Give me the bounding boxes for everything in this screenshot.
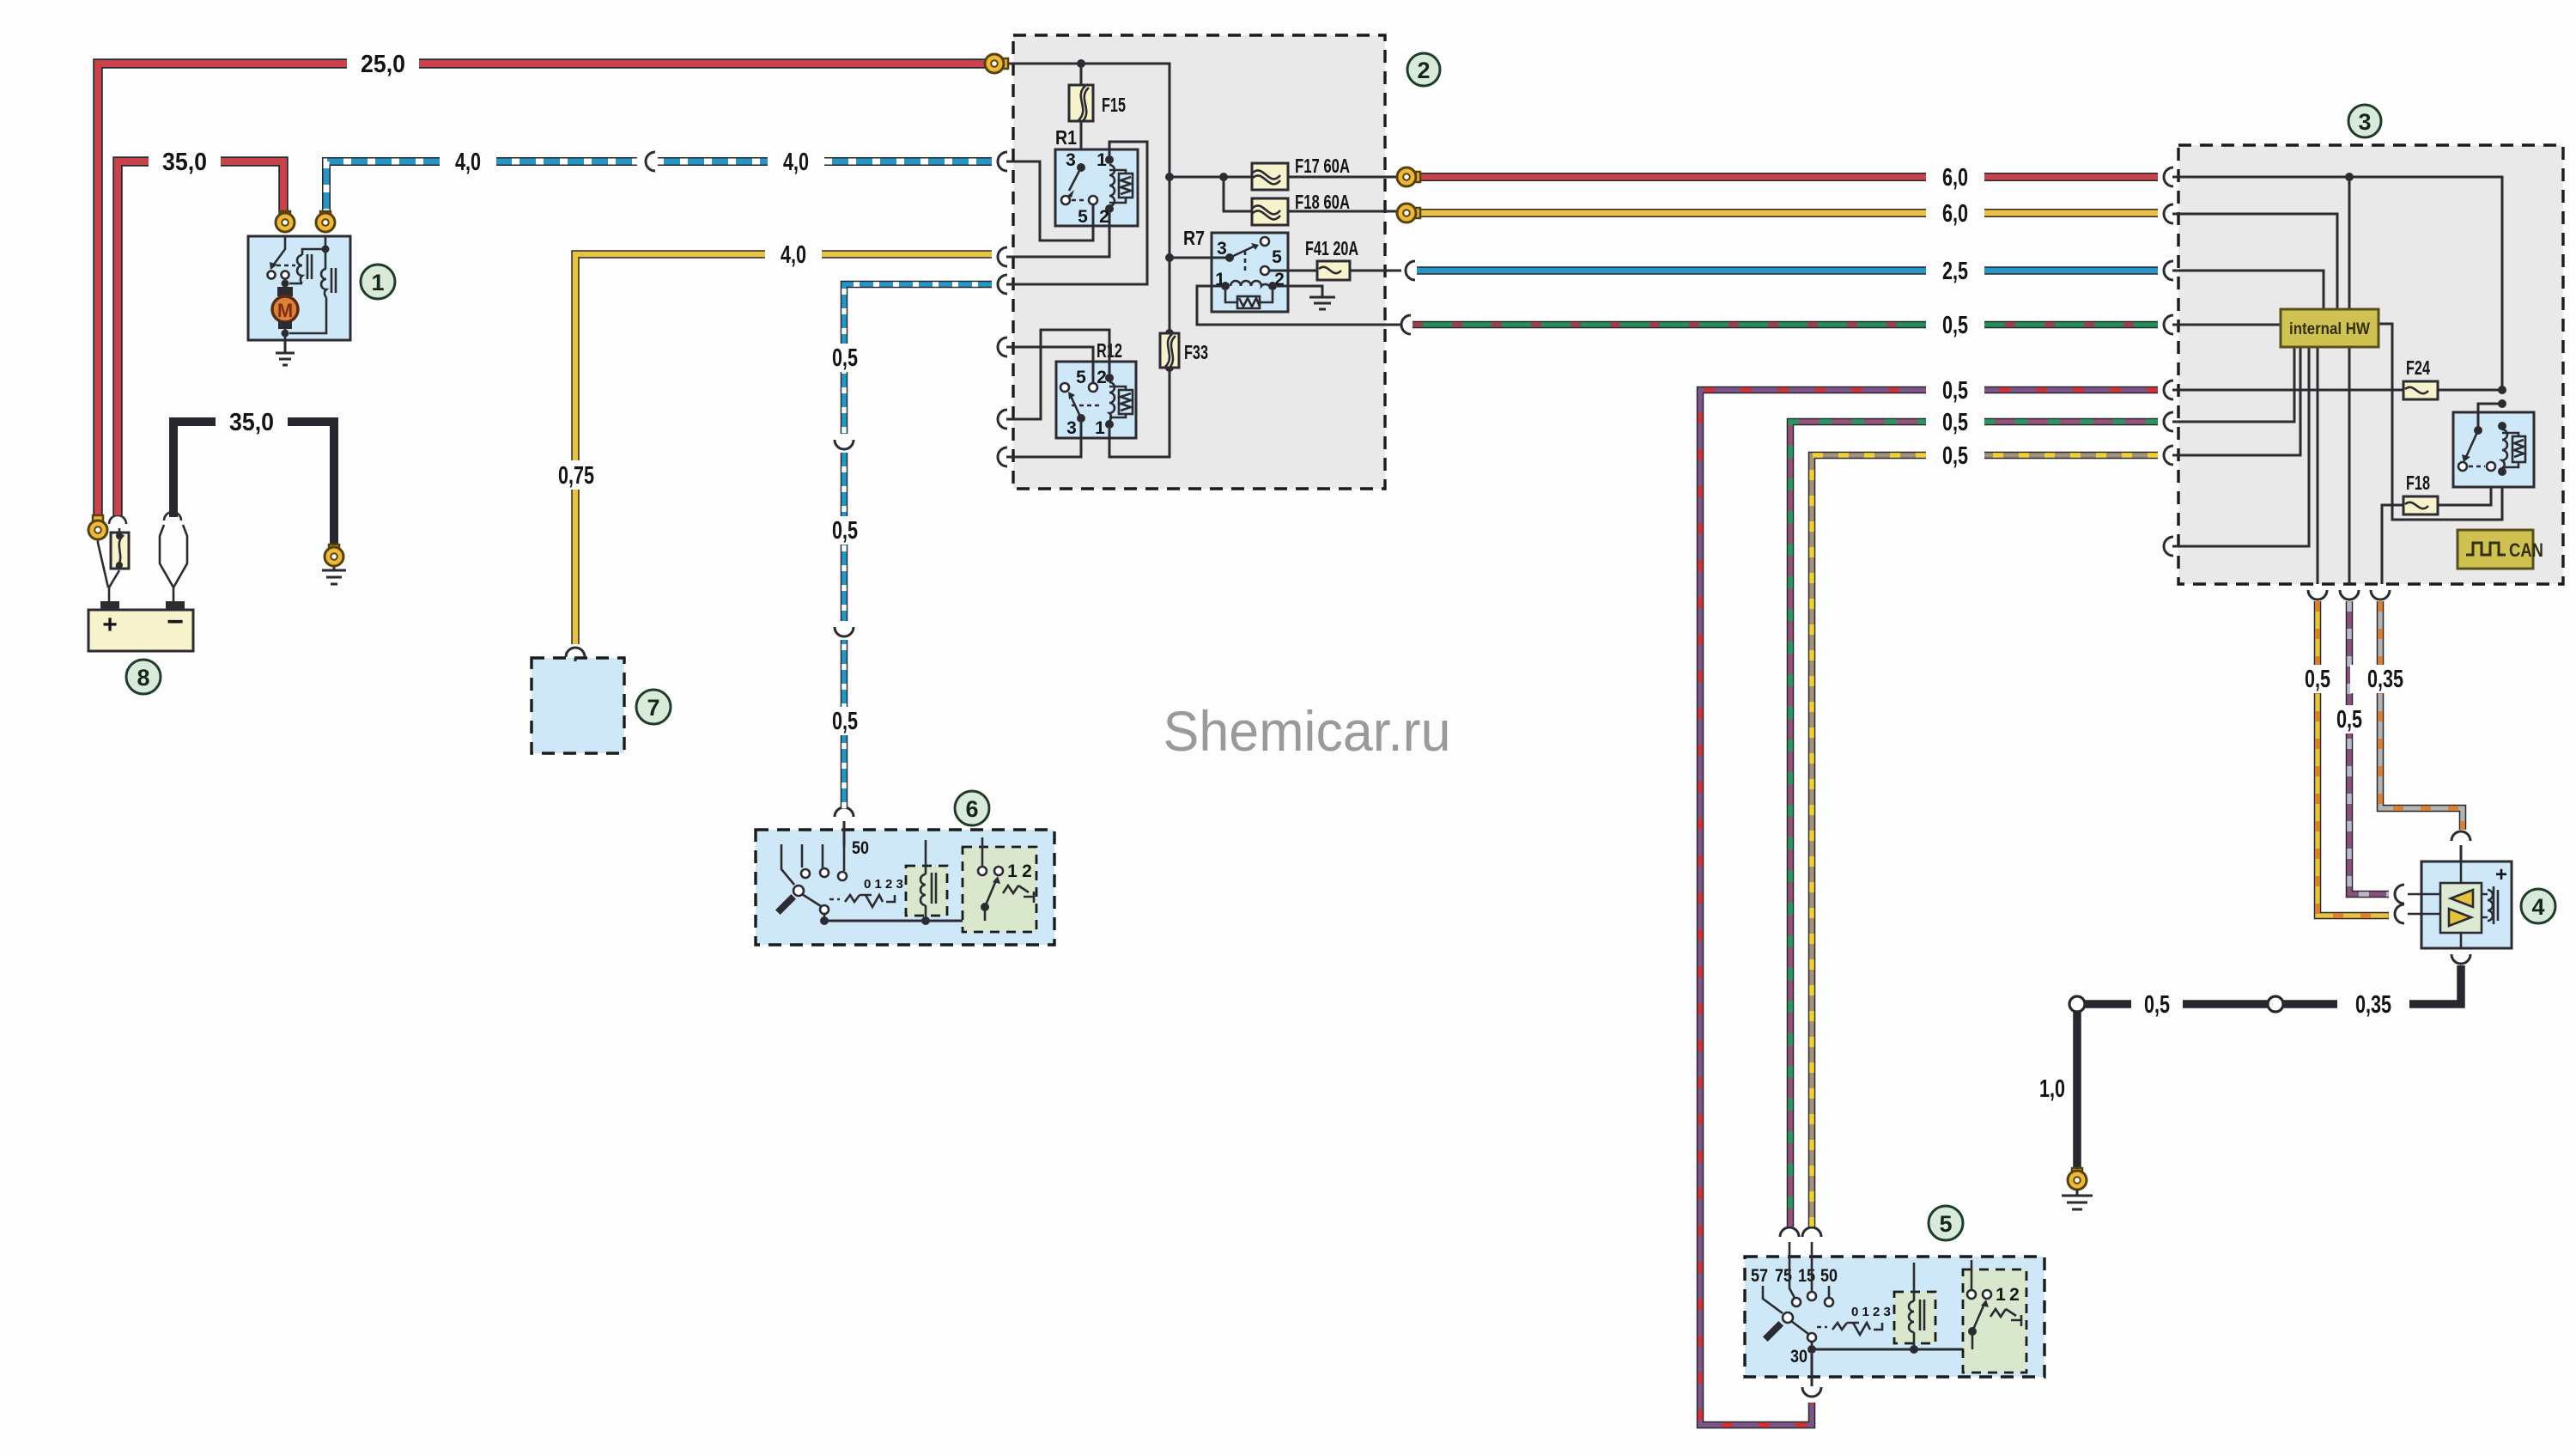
wire: green feed inside — [2172, 324, 2281, 326]
ring terminal starter 50 — [316, 211, 335, 232]
wire black ground from block4 — [2077, 965, 2461, 1172]
0123 glyph block5 — [1817, 1326, 1827, 1329]
relay body (block3) — [2453, 412, 2534, 487]
svg-text:0,5: 0,5 — [2144, 991, 2170, 1019]
svg-text:0 1 2 3: 0 1 2 3 — [1851, 1305, 1891, 1319]
wire blue-white 0,5 block2 to block6 — [844, 284, 992, 808]
block 1 box — [248, 236, 350, 340]
wire red 25,0 battery to block2 — [98, 64, 987, 521]
regulator diode box — [2440, 883, 2482, 933]
wire blue-white 4,0 starter to block2 — [326, 161, 992, 216]
connector stubs block2 left — [998, 152, 1007, 294]
R1 switch arm — [1069, 167, 1081, 191]
wire purple-gray 0,5 block3 to block4 — [2349, 601, 2389, 894]
svg-text:1: 1 — [1007, 861, 1018, 881]
block5 top connectors — [1780, 1227, 1821, 1237]
svg-text:F24: F24 — [2406, 356, 2430, 379]
wire yellow 6,0 block2 to block3 — [1413, 209, 2158, 217]
label circle 6 — [955, 791, 989, 825]
svg-text:2: 2 — [1417, 58, 1430, 83]
wire yellow-orange 0,5 block3 to block4 — [2318, 601, 2389, 916]
svg-text:+: + — [2495, 863, 2507, 886]
ring terminal ground bottom right — [2068, 1168, 2087, 1190]
svg-text:2: 2 — [1022, 861, 1032, 881]
battery body — [88, 610, 193, 651]
fuse F17 60A — [1252, 163, 1288, 190]
svg-text:1,0: 1,0 — [2039, 1075, 2065, 1103]
R12 upper-left contact — [1060, 383, 1069, 392]
node 30 — [1807, 1345, 1816, 1354]
node: F17 branch junction — [1165, 173, 1174, 181]
svg-text:0,5: 0,5 — [2305, 666, 2330, 693]
svg-text:1: 1 — [1996, 1285, 2006, 1305]
wire label 0,5 (a) — [819, 344, 871, 372]
fuse F18 element — [1253, 205, 1280, 219]
wire: R12 pin3 to connector — [1006, 423, 1081, 457]
wire label 0,5 (green-purple) — [1926, 408, 1984, 435]
wire: exits to bottom — [2317, 347, 2319, 584]
wire label 0,35 (ground lead) — [2337, 990, 2409, 1018]
svg-text:2: 2 — [1099, 207, 1109, 227]
svg-text:8: 8 — [137, 665, 149, 691]
fuse F41 body — [1317, 261, 1350, 280]
wire label 35,0 (ground lead) — [216, 408, 288, 435]
wire green-red 0,5 block2 to block3 — [1413, 321, 2158, 329]
svg-text:4,0: 4,0 — [781, 241, 806, 269]
svg-text:0,35: 0,35 — [2355, 991, 2391, 1019]
block6 immobiliser coil box — [906, 866, 947, 916]
svg-text:4,0: 4,0 — [783, 149, 809, 176]
svg-text:3: 3 — [1217, 239, 1227, 259]
ground chassis right — [2062, 1190, 2093, 1209]
wire: R7 pin5 to F41 — [1269, 270, 1401, 272]
wire: blue feed inside — [2172, 271, 2324, 309]
svg-text:50: 50 — [1820, 1266, 1838, 1286]
alternator winding — [2488, 890, 2493, 921]
ring terminal chassis ground left — [325, 545, 343, 566]
svg-text:F18 60A: F18 60A — [1295, 191, 1350, 213]
battery - clamp fork — [160, 525, 187, 601]
R7 pin 1 node — [1221, 282, 1230, 290]
ring terminal red25 at block2 — [985, 54, 1008, 73]
ground chassis left — [322, 560, 346, 584]
svg-text:0,5: 0,5 — [832, 517, 858, 545]
R12 coil resistor — [1119, 390, 1133, 414]
R12 pin 1 node — [1105, 420, 1114, 429]
svg-text:35,0: 35,0 — [162, 149, 207, 176]
label circle 7 — [636, 690, 671, 724]
relay NO contact — [2458, 462, 2467, 471]
wire: internal HW right side — [2379, 324, 2502, 520]
CAN box — [2458, 530, 2533, 569]
label circle 8 — [126, 660, 161, 694]
svg-text:6,0: 6,0 — [1942, 164, 1968, 192]
wire purple-red 0,5 block3 to block5 pin30 — [1700, 390, 2158, 1425]
starter contact block — [277, 287, 293, 296]
svg-text:F33: F33 — [1184, 341, 1208, 363]
wire yellow 4,0 / 0,75 to block7 — [575, 254, 992, 644]
wire: R7 pin2 to ground — [1277, 286, 1322, 297]
R7 coil — [1230, 281, 1269, 286]
wire label 6,0 (red) — [1926, 163, 1984, 191]
svg-text:R1: R1 — [1055, 126, 1077, 149]
wire: R7 pin1 to connector (green wire) — [1197, 286, 1401, 325]
wire: R1 pin2 to connector — [1006, 213, 1109, 257]
block5 immobiliser coil box — [1894, 1292, 1935, 1343]
wire: bus from battery feed — [1005, 64, 1170, 333]
fuse F17 element — [1253, 170, 1280, 184]
battery + clamp fork — [98, 540, 119, 601]
wire: R12 pin1 to F33 — [1109, 368, 1170, 457]
inline fuse at battery — [111, 533, 129, 569]
wire label 0,5 (b) — [819, 516, 871, 545]
relay R7 body — [1212, 233, 1288, 312]
pin 30 stub — [1811, 1354, 1814, 1386]
wire label 0,5 (c) — [819, 707, 871, 735]
svg-text:M: M — [277, 300, 293, 321]
svg-text:5: 5 — [1076, 368, 1086, 387]
ground R7 — [1309, 297, 1335, 309]
relay coil (block3) — [2502, 429, 2507, 469]
inline connectors on blue-white 0,5 — [836, 434, 852, 453]
wire: to lower-left connectors — [2172, 347, 2294, 422]
wire label 0,75 — [547, 460, 609, 490]
R1 pin 2 node — [1105, 204, 1114, 213]
svg-text:Shemicar.ru: Shemicar.ru — [1163, 699, 1451, 763]
wire: bus to F17/F18 — [1170, 176, 1398, 179]
wire label 4,0 (right) — [768, 148, 824, 175]
ring terminal F17 out — [1397, 167, 1420, 186]
block6 switch pins — [781, 844, 844, 885]
wire blue 2,5 block2 to block3 — [1417, 266, 2158, 275]
wire label 4,0 (yellow) — [765, 240, 822, 268]
svg-text:0,5: 0,5 — [2336, 706, 2362, 734]
svg-text:6: 6 — [965, 796, 978, 822]
svg-text:2,5: 2,5 — [1942, 258, 1968, 285]
R7 coil resistor — [1237, 296, 1260, 308]
wire: F18b right to relay — [2438, 472, 2491, 505]
svg-text:F17 60A: F17 60A — [1295, 155, 1350, 177]
internal HW box — [2281, 309, 2379, 347]
wire label 6,0 (yellow) — [1926, 199, 1984, 227]
block6 key lever — [775, 894, 796, 915]
diode down — [2449, 909, 2471, 926]
R12 pin 5 contact — [1089, 383, 1097, 392]
node: R7 branch junction — [1165, 253, 1174, 262]
relay coil bottom node — [2498, 467, 2506, 476]
svg-text:3: 3 — [1066, 150, 1076, 170]
wire label 25,0 — [347, 50, 419, 77]
svg-text:1: 1 — [371, 270, 384, 295]
wire black 35,0 battery to ground — [173, 422, 334, 550]
block6 position glyph — [845, 895, 895, 907]
svg-text:0,5: 0,5 — [832, 708, 858, 735]
wire: F18b left to gray exit — [2382, 505, 2403, 584]
svg-text:0,5: 0,5 — [1942, 442, 1968, 470]
fuse F18 60A — [1252, 198, 1288, 225]
connector stubs block3 bottom — [2308, 590, 2327, 600]
svg-text:+: + — [102, 611, 118, 639]
svg-text:2: 2 — [1097, 368, 1107, 387]
wire red 35,0 battery to starter — [118, 161, 283, 515]
battery - post — [166, 601, 185, 610]
svg-text:1: 1 — [1097, 150, 1107, 170]
svg-text:5: 5 — [1939, 1211, 1952, 1237]
wire: F15 feed — [1080, 64, 1083, 167]
svg-text:50: 50 — [852, 838, 869, 858]
R1 pin 1 node — [1105, 155, 1114, 164]
fuse F33 — [1169, 333, 1171, 368]
battery + post — [100, 601, 119, 610]
svg-text:30: 30 — [1790, 1347, 1807, 1367]
wire: red feed inside — [2172, 177, 2502, 390]
label circle 4 — [2521, 889, 2555, 923]
relay NC contact — [2487, 462, 2495, 471]
svg-text:0,5: 0,5 — [1942, 377, 1968, 405]
R1 coil resistor — [1119, 174, 1133, 198]
wire: 30 rail — [1812, 1348, 1972, 1351]
svg-text:CAN: CAN — [2509, 539, 2543, 561]
R1 pin 3 node — [1077, 163, 1085, 172]
label 3 — [2348, 105, 2381, 137]
svg-text:0,75: 0,75 — [558, 462, 594, 490]
splice joints — [2268, 996, 2283, 1012]
wire label 35,0 (battery feed) — [149, 148, 221, 175]
solenoid hold-in coil — [321, 269, 326, 297]
fuse F33 body — [1160, 333, 1179, 368]
wire: F24 line — [2172, 389, 2502, 392]
svg-text:57: 57 — [1751, 1266, 1768, 1286]
wire: yellow feed inside — [2172, 214, 2337, 309]
label circle 5 — [1929, 1206, 1963, 1240]
block5 position glyph — [1832, 1323, 1882, 1335]
ring terminal starter B+ — [276, 211, 295, 232]
wire green-purple 0,5 block3 to block5 — [1790, 422, 2158, 1227]
wire label 0,5 (purple-red) — [1926, 376, 1984, 404]
svg-text:4: 4 — [2531, 894, 2544, 920]
wire: common rail block6 — [824, 920, 985, 922]
node: bus top junction — [1077, 59, 1085, 68]
wire label 0,5 (green-red) — [1926, 311, 1984, 338]
label 2 — [1407, 53, 1440, 86]
block5 key lever — [1763, 1321, 1783, 1342]
block 2 enclosure — [1013, 35, 1385, 489]
ring terminal F18 out — [1397, 204, 1420, 222]
R7 pin 2 node — [1268, 282, 1277, 290]
relay R12 body — [1056, 362, 1136, 438]
wire red 6,0 block2 to block3 — [1413, 173, 2158, 181]
relay coil resistor (block3) — [2512, 436, 2525, 462]
svg-text:F41 20A: F41 20A — [1305, 237, 1358, 259]
svg-text:0,35: 0,35 — [2367, 666, 2403, 693]
wire label 4,0 (left) — [440, 148, 496, 175]
block5 relay sub-box — [1963, 1269, 2026, 1373]
wire label 0,35 (gray-orange) — [2350, 665, 2419, 693]
wire yellow-gray 0,5 block3 to block5 — [1812, 455, 2158, 1227]
svg-text:3: 3 — [2358, 109, 2371, 135]
wire label 2,5 — [1926, 257, 1984, 284]
svg-text:0,5: 0,5 — [1942, 409, 1968, 436]
fuse F15 body — [1069, 85, 1093, 121]
solenoid terminal 50 lead — [325, 236, 327, 249]
inline fuse at battery — [109, 515, 126, 524]
svg-text:25,0: 25,0 — [361, 51, 405, 78]
ring terminal battery + feed — [88, 515, 107, 539]
fuse F24 body — [2403, 381, 2438, 399]
R7 pin 5 contact — [1261, 266, 1269, 275]
svg-text:F15: F15 — [1102, 94, 1126, 116]
ground starter — [276, 340, 295, 365]
svg-text:6,0: 6,0 — [1942, 200, 1968, 228]
R12 coil — [1109, 382, 1115, 421]
connector stubs R12 — [998, 338, 1007, 466]
R1 pin 5 contact — [1089, 196, 1097, 204]
relay common node — [2474, 426, 2482, 435]
fuse F18 body (block3) — [2403, 496, 2438, 514]
svg-text:5: 5 — [1272, 247, 1282, 267]
svg-text:1: 1 — [1095, 418, 1105, 438]
block6 relay sub-box — [963, 847, 1036, 932]
svg-text:0 1 2 3: 0 1 2 3 — [864, 877, 903, 892]
R7 pin 3 node — [1225, 253, 1234, 262]
R12 pin 2 node — [1105, 374, 1114, 382]
svg-text:0,5: 0,5 — [832, 344, 858, 372]
wire label 0,5 (purple-gray) — [2324, 705, 2375, 734]
block5 pivot contact — [1783, 1312, 1793, 1323]
relay feed node — [2498, 399, 2506, 408]
block6 pivot contact — [793, 886, 804, 896]
wire label 0,5 (yellow-orange) — [2292, 665, 2343, 693]
0123 position glyph — [829, 898, 840, 901]
wire gray-orange 0,35 block3 to block4 top — [2380, 601, 2463, 830]
wire label 0,5 (ground lead) — [2131, 990, 2183, 1018]
relay R1 body — [1055, 149, 1138, 226]
wire: R1 pin5 to connector — [1006, 161, 1093, 240]
connector stubs block3 left — [2164, 167, 2173, 186]
R1 coil — [1109, 165, 1115, 206]
svg-text:4,0: 4,0 — [455, 149, 481, 176]
svg-text:7: 7 — [647, 695, 659, 721]
svg-text:R7: R7 — [1183, 227, 1205, 249]
starter solenoid switch — [273, 236, 285, 265]
solenoid pull-in coil — [297, 255, 302, 283]
wire: R1 pin1 loop to connector — [1006, 142, 1147, 284]
R7 upper contact — [1261, 237, 1269, 246]
wire: R12 pin2 to connector — [1006, 330, 1109, 419]
svg-text:internal HW: internal HW — [2289, 320, 2370, 338]
block 3 enclosure — [2178, 145, 2563, 584]
wire: R12 pin5 to connector — [1006, 347, 1093, 383]
relay coil top node — [2498, 422, 2506, 430]
wire label 0,5 (yellow-gray) — [1926, 441, 1984, 469]
svg-text:2: 2 — [2009, 1285, 2020, 1305]
svg-text:5: 5 — [1078, 207, 1088, 227]
svg-text:35,0: 35,0 — [229, 409, 274, 436]
starter motor M — [272, 296, 298, 322]
node F17/F18 branch — [1219, 173, 1228, 181]
R12 pin 3 node — [1077, 414, 1085, 423]
diode up — [2451, 890, 2473, 907]
inline connector on blue 4,0 — [637, 155, 658, 169]
svg-text:0,5: 0,5 — [1942, 312, 1968, 339]
svg-text:−: − — [167, 606, 184, 638]
svg-text:F18: F18 — [2406, 472, 2430, 494]
label circle 1 — [361, 265, 395, 299]
svg-text:3: 3 — [1066, 418, 1077, 438]
